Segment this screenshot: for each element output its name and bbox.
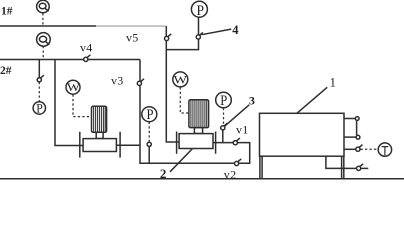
- svg-text:v2: v2: [224, 167, 237, 181]
- svg-text:3: 3: [249, 93, 255, 107]
- svg-text:P: P: [197, 3, 205, 19]
- svg-text:1#: 1#: [1, 5, 13, 17]
- svg-text:2: 2: [160, 166, 167, 181]
- svg-text:v5: v5: [126, 31, 139, 45]
- svg-text:W: W: [174, 74, 188, 86]
- svg-text:2#: 2#: [0, 65, 12, 77]
- svg-text:W: W: [67, 82, 80, 94]
- svg-text:P: P: [220, 93, 227, 109]
- svg-text:P: P: [147, 107, 154, 123]
- svg-text:4: 4: [232, 23, 239, 37]
- svg-text:v3: v3: [111, 73, 124, 87]
- svg-text:1: 1: [330, 76, 336, 90]
- svg-text:v4: v4: [80, 41, 93, 55]
- svg-text:v1: v1: [236, 123, 249, 137]
- svg-text:P: P: [36, 100, 43, 115]
